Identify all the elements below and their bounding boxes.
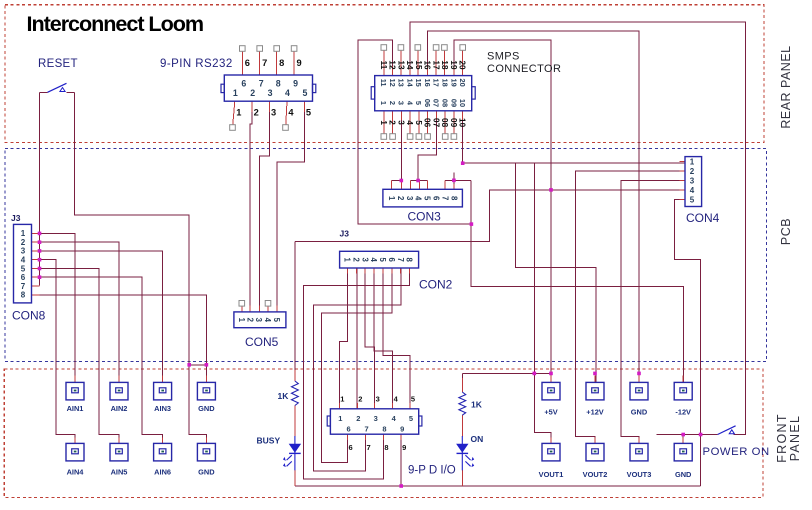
svg-text:5: 5	[378, 258, 387, 263]
svg-text:06: 06	[423, 99, 432, 107]
svg-text:17: 17	[431, 60, 440, 70]
svg-text:4: 4	[285, 88, 290, 98]
svg-text:VOUT3: VOUT3	[627, 470, 652, 479]
svg-text:CON5: CON5	[245, 335, 279, 349]
svg-text:7: 7	[259, 79, 264, 89]
svg-text:J3: J3	[11, 213, 21, 223]
svg-text:5: 5	[423, 196, 432, 201]
svg-text:5: 5	[272, 318, 281, 323]
svg-text:9-P D I/O: 9-P D I/O	[408, 465, 456, 477]
svg-text:8: 8	[384, 443, 388, 452]
svg-text:2: 2	[245, 318, 254, 323]
svg-text:5: 5	[690, 195, 695, 204]
svg-text:6: 6	[347, 424, 351, 433]
svg-text:AIN3: AIN3	[154, 404, 171, 413]
svg-text:2: 2	[388, 120, 397, 125]
svg-text:1: 1	[233, 88, 238, 98]
svg-text:17: 17	[432, 78, 441, 86]
svg-text:8: 8	[382, 424, 386, 433]
svg-text:SMPS: SMPS	[487, 51, 520, 63]
svg-text:2: 2	[254, 108, 259, 118]
svg-text:6: 6	[349, 443, 353, 452]
svg-text:PCB: PCB	[779, 218, 793, 245]
svg-text:10: 10	[458, 99, 467, 107]
svg-text:1: 1	[340, 395, 344, 404]
svg-text:7: 7	[440, 196, 449, 200]
svg-text:2: 2	[388, 101, 397, 105]
svg-text:9: 9	[293, 79, 298, 89]
svg-text:2: 2	[250, 88, 255, 98]
svg-text:FRONT: FRONT	[775, 413, 789, 463]
svg-text:GND: GND	[198, 468, 215, 477]
svg-text:1K: 1K	[471, 400, 483, 410]
svg-text:POWER ON: POWER ON	[703, 446, 770, 458]
svg-text:4: 4	[263, 318, 272, 323]
svg-text:ON: ON	[471, 434, 484, 444]
svg-text:15: 15	[414, 78, 423, 86]
svg-text:5: 5	[409, 414, 413, 423]
svg-text:12: 12	[388, 78, 397, 86]
svg-text:13: 13	[396, 60, 405, 70]
svg-text:2: 2	[356, 414, 360, 423]
svg-text:13: 13	[397, 78, 406, 86]
svg-text:18: 18	[440, 78, 449, 86]
svg-text:AIN2: AIN2	[111, 404, 128, 413]
svg-text:5: 5	[411, 395, 415, 404]
svg-text:4: 4	[690, 186, 695, 195]
svg-text:6: 6	[432, 196, 441, 201]
svg-text:8: 8	[449, 196, 458, 201]
svg-text:4: 4	[414, 196, 423, 201]
svg-text:08: 08	[440, 118, 449, 128]
svg-text:RESET: RESET	[38, 58, 78, 70]
svg-text:BUSY: BUSY	[257, 436, 281, 446]
svg-text:1: 1	[343, 258, 352, 263]
svg-text:AIN4: AIN4	[67, 468, 85, 477]
svg-text:7: 7	[21, 282, 26, 291]
svg-text:AIN1: AIN1	[67, 404, 84, 413]
svg-text:07: 07	[432, 99, 441, 107]
svg-text:8: 8	[279, 58, 284, 68]
svg-text:5: 5	[306, 108, 311, 118]
svg-text:3: 3	[690, 176, 695, 185]
svg-text:PANEL: PANEL	[788, 415, 802, 462]
svg-text:9: 9	[402, 443, 406, 452]
svg-text:2: 2	[21, 238, 26, 247]
svg-text:6: 6	[245, 58, 250, 68]
svg-text:11: 11	[379, 61, 388, 70]
svg-text:8: 8	[405, 258, 414, 263]
svg-text:VOUT1: VOUT1	[539, 470, 564, 479]
svg-text:8: 8	[21, 291, 26, 300]
svg-text:09: 09	[449, 99, 458, 107]
svg-text:10: 10	[458, 118, 467, 128]
svg-text:1: 1	[690, 157, 695, 166]
svg-text:3: 3	[397, 101, 406, 105]
svg-text:2: 2	[358, 395, 362, 404]
svg-text:4: 4	[21, 256, 26, 265]
svg-text:08: 08	[440, 99, 449, 107]
svg-text:GND: GND	[198, 404, 215, 413]
svg-text:5: 5	[414, 101, 423, 105]
svg-text:18: 18	[440, 60, 449, 70]
svg-text:CON2: CON2	[419, 278, 453, 292]
svg-text:09: 09	[449, 118, 458, 128]
svg-text:1: 1	[338, 414, 342, 423]
svg-text:+5V: +5V	[544, 408, 557, 417]
svg-text:7: 7	[365, 424, 369, 433]
svg-text:12: 12	[388, 60, 397, 70]
svg-text:VOUT2: VOUT2	[583, 470, 608, 479]
svg-text:16: 16	[423, 78, 432, 86]
svg-text:Interconnect Loom: Interconnect Loom	[27, 11, 204, 36]
svg-text:2: 2	[396, 196, 405, 201]
svg-text:2: 2	[690, 167, 695, 176]
svg-text:GND: GND	[631, 408, 648, 417]
svg-text:9-PIN RS232: 9-PIN RS232	[160, 58, 233, 70]
svg-text:3: 3	[271, 108, 276, 118]
svg-text:8: 8	[276, 79, 281, 89]
svg-text:CON3: CON3	[408, 210, 442, 224]
svg-text:3: 3	[405, 196, 414, 201]
svg-text:1: 1	[21, 229, 26, 238]
svg-text:3: 3	[374, 414, 378, 423]
svg-text:16: 16	[423, 60, 432, 70]
svg-text:2: 2	[351, 258, 360, 263]
svg-text:1: 1	[379, 120, 388, 125]
svg-text:3: 3	[396, 120, 405, 125]
svg-text:4: 4	[288, 108, 294, 118]
svg-text:3: 3	[21, 247, 26, 256]
svg-text:6: 6	[241, 79, 246, 89]
svg-text:15: 15	[414, 60, 423, 70]
svg-text:14: 14	[405, 78, 414, 87]
svg-text:3: 3	[376, 395, 380, 404]
svg-text:REAR PANEL: REAR PANEL	[779, 45, 793, 128]
svg-text:CON4: CON4	[686, 211, 720, 225]
svg-text:1: 1	[236, 108, 241, 118]
svg-text:5: 5	[302, 88, 307, 98]
svg-text:07: 07	[431, 118, 440, 128]
svg-text:7: 7	[396, 258, 405, 262]
svg-text:7: 7	[367, 443, 371, 452]
svg-text:CONNECTOR: CONNECTOR	[487, 63, 561, 75]
svg-text:19: 19	[449, 78, 458, 86]
svg-text:4: 4	[369, 258, 378, 263]
svg-text:CON8: CON8	[12, 309, 46, 323]
svg-text:9: 9	[400, 424, 404, 433]
svg-text:6: 6	[21, 273, 26, 282]
svg-text:5: 5	[414, 120, 423, 125]
svg-text:1: 1	[237, 318, 246, 323]
svg-text:-12V: -12V	[675, 408, 691, 417]
svg-text:GND: GND	[675, 470, 692, 479]
svg-text:AIN5: AIN5	[111, 468, 128, 477]
svg-text:20: 20	[458, 60, 467, 70]
svg-text:3: 3	[360, 258, 369, 263]
svg-text:AIN6: AIN6	[154, 468, 171, 477]
svg-text:9: 9	[297, 58, 302, 68]
svg-text:1: 1	[379, 101, 388, 105]
svg-text:14: 14	[405, 60, 414, 70]
svg-text:20: 20	[458, 78, 467, 86]
svg-text:6: 6	[387, 258, 396, 263]
svg-text:3: 3	[268, 88, 273, 98]
svg-text:5: 5	[21, 264, 26, 273]
svg-text:7: 7	[262, 58, 267, 68]
svg-text:4: 4	[405, 120, 414, 125]
svg-text:19: 19	[449, 60, 458, 70]
svg-text:11: 11	[379, 79, 388, 87]
svg-text:1K: 1K	[278, 391, 290, 401]
svg-text:J3: J3	[340, 229, 350, 239]
svg-text:3: 3	[254, 318, 263, 323]
svg-text:+12V: +12V	[586, 408, 604, 417]
svg-text:06: 06	[423, 118, 432, 128]
svg-text:1: 1	[387, 196, 396, 201]
